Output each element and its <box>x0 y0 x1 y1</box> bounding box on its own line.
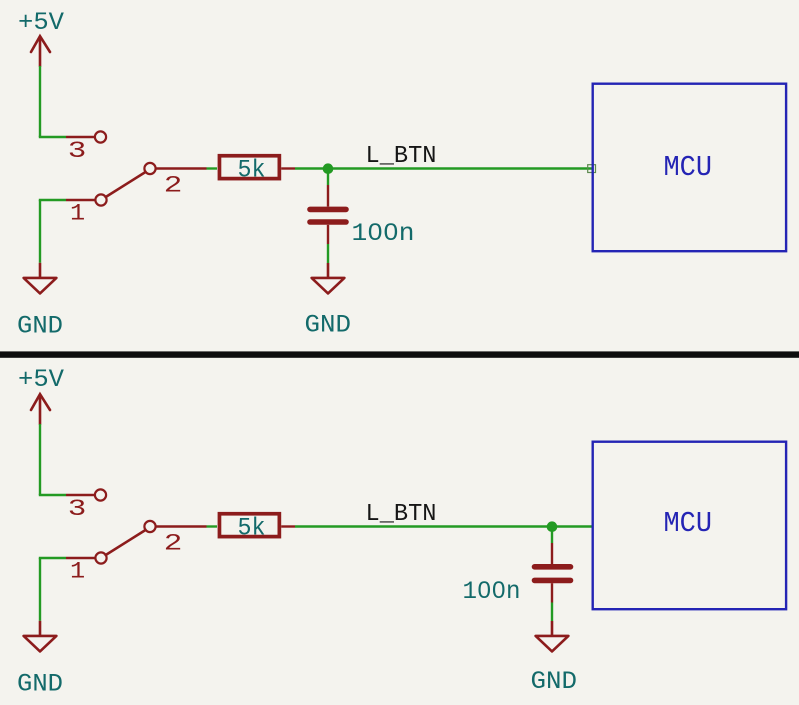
capacitor C 100n (bottom) <box>535 543 571 603</box>
svg-text:MCU: MCU <box>664 151 713 184</box>
svg-text:5k: 5k <box>238 156 266 185</box>
svg-text:GND: GND <box>305 311 352 340</box>
wire resistor to MCU, net L_BTN (bottom) <box>295 525 592 527</box>
ground symbol under capacitor (bottom) <box>536 621 569 651</box>
wire capacitor to GND (top) <box>327 244 329 263</box>
switch SW pin 1 (bottom) <box>66 557 95 559</box>
switch SW pin 2 (bottom) <box>144 521 155 532</box>
svg-text:GND: GND <box>17 312 63 341</box>
thick divider line <box>0 351 799 357</box>
switch SW pin 3 (top) <box>66 136 95 138</box>
ground symbol left (top) <box>24 263 57 294</box>
wire GND to switch pin 1 (top) <box>39 200 66 263</box>
wire +5V to switch pin 3 (top) <box>39 66 66 137</box>
svg-text:MCU: MCU <box>664 507 713 540</box>
MCU box (top) <box>593 84 786 252</box>
wire capacitor to GND (bottom) <box>551 603 553 622</box>
wire switch to resistor (top) <box>207 167 218 169</box>
junction (top) <box>323 163 334 174</box>
wire end square at MCU (top) <box>588 165 596 173</box>
svg-text:1: 1 <box>70 201 85 227</box>
ground symbol under capacitor (top) <box>312 263 345 293</box>
wire GND to switch pin 1 (bottom) <box>39 558 66 621</box>
svg-text:L_BTN: L_BTN <box>366 501 437 528</box>
svg-text:+5V: +5V <box>18 8 64 37</box>
svg-text:GND: GND <box>17 670 63 699</box>
wire junction to capacitor (bottom) <box>551 527 553 544</box>
switch SW pin 3 (bottom) <box>66 494 95 496</box>
switch SW pin 1 (top) <box>66 199 95 201</box>
svg-text:2: 2 <box>164 531 183 557</box>
resistor right pin (top) <box>281 167 295 169</box>
svg-text:1: 1 <box>70 559 85 585</box>
wire switch to resistor (bottom) <box>207 525 218 527</box>
resistor right pin (bottom) <box>281 525 295 527</box>
resistor R 5k body (top) <box>219 156 279 179</box>
switch lever (top) <box>106 172 146 197</box>
power symbol +5V arrow (top) <box>31 36 50 66</box>
switch SW pin 2 (top) <box>144 163 155 174</box>
capacitor C 100n (top) <box>310 185 346 244</box>
svg-text:+5V: +5V <box>18 365 64 394</box>
MCU box (bottom) <box>593 442 786 610</box>
junction (bottom) <box>547 521 558 532</box>
svg-text:2: 2 <box>164 173 183 199</box>
svg-text:L_BTN: L_BTN <box>366 143 437 170</box>
wire +5V to switch pin 3 (bottom) <box>39 424 66 495</box>
svg-text:100n: 100n <box>352 219 415 248</box>
svg-text:5k: 5k <box>238 514 266 543</box>
switch lever (bottom) <box>106 530 146 555</box>
svg-text:GND: GND <box>531 667 578 696</box>
svg-text:3: 3 <box>68 496 87 522</box>
resistor R 5k body (bottom) <box>219 514 279 537</box>
wire resistor to MCU, net L_BTN (top) <box>295 167 592 169</box>
wire junction to capacitor (top) <box>327 169 329 186</box>
power symbol +5V arrow (bottom) <box>31 394 50 424</box>
svg-text:3: 3 <box>68 138 87 164</box>
svg-text:100n: 100n <box>463 577 521 606</box>
ground symbol left (bottom) <box>24 621 57 652</box>
